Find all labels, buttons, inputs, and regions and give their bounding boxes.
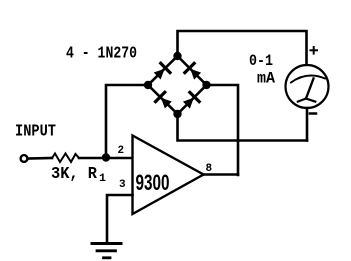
svg-text:INPUT: INPUT [15, 123, 56, 142]
svg-text:3: 3 [119, 179, 126, 191]
svg-text:3K, R: 3K, R [51, 165, 98, 184]
svg-text:9300: 9300 [136, 170, 170, 195]
svg-text:0-1: 0-1 [249, 52, 273, 70]
svg-text:8: 8 [206, 163, 213, 175]
svg-text:2: 2 [118, 145, 125, 157]
svg-text:1: 1 [99, 173, 106, 185]
svg-text:4 - 1N270: 4 - 1N270 [66, 45, 137, 64]
svg-text:mA: mA [257, 70, 275, 88]
